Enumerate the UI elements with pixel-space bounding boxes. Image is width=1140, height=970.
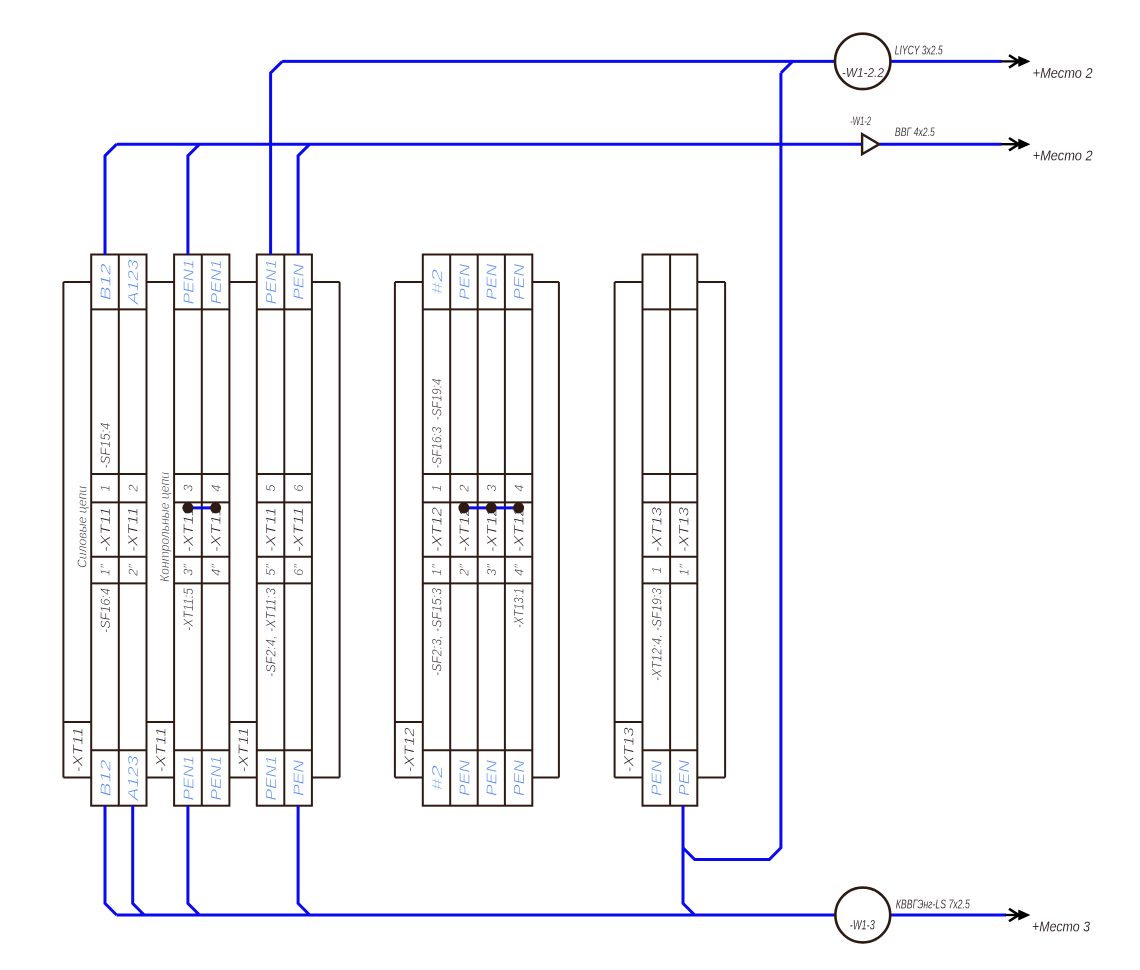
svg-text:PEN1: PEN1: [263, 259, 280, 304]
svg-text:-XT11: -XT11: [208, 507, 224, 552]
svg-text:LIYCY 3x2.5: LIYCY 3x2.5: [895, 43, 943, 58]
svg-text:4″: 4″: [208, 564, 223, 576]
terminal strip XT12 outline: [423, 255, 533, 806]
wire PEN1 to cable W1-2: [188, 144, 200, 254]
svg-text:PEN: PEN: [511, 760, 528, 796]
svg-text:3: 3: [484, 484, 499, 492]
svg-text:3: 3: [181, 484, 196, 492]
svg-text:+Место 2: +Место 2: [1033, 65, 1094, 82]
svg-text:-SF16:4: -SF16:4: [97, 588, 113, 633]
wire B12 to cable W1-3: [105, 806, 117, 915]
svg-text:2″: 2″: [125, 564, 140, 577]
svg-text:5″: 5″: [263, 564, 278, 576]
wire cable W1-2 to arrow: [879, 143, 1001, 146]
svg-text:1: 1: [429, 485, 444, 492]
wire W1-2.2 horizontal: [282, 60, 835, 63]
cable symbol W1-3 (circle): [835, 888, 890, 943]
wire cable W1-3 to arrow: [890, 914, 1006, 917]
svg-text:-XT12: -XT12: [511, 507, 527, 552]
terminal block XT11 outer bracket: [63, 282, 339, 778]
svg-text:PEN1: PEN1: [263, 756, 280, 801]
wire riser XT13 PEN to W1-2.2: [683, 61, 793, 859]
wire cable W1-2.2 to arrow: [891, 60, 1002, 63]
svg-text:2: 2: [457, 484, 472, 493]
svg-text:PEN1: PEN1: [180, 756, 197, 801]
svg-text:-XT11: -XT11: [152, 727, 168, 772]
svg-text:PEN: PEN: [676, 760, 693, 796]
terminal block XT13 outer bracket: [615, 282, 726, 778]
svg-text:#2: #2: [429, 764, 446, 791]
svg-text:-XT11: -XT11: [69, 727, 85, 772]
svg-text:B12: B12: [97, 759, 114, 797]
svg-text:Силовые цепи: Силовые цепи: [74, 486, 89, 568]
svg-text:-XT11: -XT11: [97, 507, 113, 552]
svg-text:1″: 1″: [676, 564, 691, 576]
svg-text:-XT12: -XT12: [401, 727, 417, 772]
svg-text:+Место 2: +Место 2: [1033, 148, 1094, 165]
wire bus to cable W1-2 (horizontal): [117, 143, 863, 146]
svg-text:B12: B12: [97, 263, 114, 301]
terminal block XT12 outer bracket: [395, 282, 559, 778]
svg-text:-XT12:4, -SF19:3: -XT12:4, -SF19:3: [648, 588, 664, 681]
svg-text:1″: 1″: [98, 564, 113, 576]
svg-text:-SF2:4, -XT11:3: -SF2:4, -XT11:3: [263, 588, 279, 677]
wire PEN1 to cable W1-2.2: [271, 61, 283, 254]
cable symbol W1-2 (triangle): [862, 134, 879, 154]
svg-text:A123: A123: [125, 755, 142, 802]
svg-text:PEN: PEN: [649, 760, 666, 796]
svg-text:PEN: PEN: [456, 760, 473, 796]
wire A123 to cable W1-3: [133, 806, 145, 915]
terminal strip XT11-1 outline: [91, 255, 146, 806]
terminal strip XT11-2 outline: [174, 255, 229, 806]
svg-text:#2: #2: [429, 268, 446, 295]
arrow to +Место 2 (W1-2): [1001, 138, 1029, 150]
svg-text:PEN1: PEN1: [208, 259, 225, 304]
svg-text:-XT11: -XT11: [263, 507, 279, 552]
svg-text:-XT12: -XT12: [429, 507, 445, 552]
svg-text:4: 4: [208, 485, 223, 492]
svg-text:PEN: PEN: [484, 264, 501, 300]
svg-text:PEN1: PEN1: [208, 756, 225, 801]
svg-text:-XT11: -XT11: [125, 507, 141, 552]
wire XT13 PEN down to bus: [683, 806, 695, 915]
jumper XT11 terminals 3-4: [182, 502, 221, 513]
svg-text:-XT11: -XT11: [290, 507, 306, 552]
svg-text:5: 5: [263, 484, 278, 492]
arrow to +Место 2 (W1-2.2): [1001, 55, 1029, 67]
svg-text:ВВГ 4х2.5: ВВГ 4х2.5: [895, 125, 935, 139]
svg-text:-XT11: -XT11: [235, 727, 251, 772]
svg-text:PEN1: PEN1: [180, 259, 197, 304]
svg-text:PEN: PEN: [511, 264, 528, 300]
svg-text:КВВГЭнг-LS 7х2.5: КВВГЭнг-LS 7х2.5: [896, 897, 971, 912]
wire PEN to cable W1-2: [298, 144, 310, 254]
svg-text:PEN: PEN: [291, 264, 308, 300]
svg-text:-XT13: -XT13: [648, 507, 664, 552]
svg-text:1: 1: [649, 566, 664, 573]
svg-text:-XT12: -XT12: [483, 507, 499, 552]
terminal strip XT11-3 outline: [257, 255, 312, 806]
arrow to +Место 3 (W1-3): [1006, 909, 1030, 921]
svg-text:-W1-3: -W1-3: [850, 918, 875, 933]
svg-text:-XT13: -XT13: [621, 727, 637, 772]
wire B12 to cable W1-2: [105, 144, 117, 254]
svg-text:4: 4: [511, 485, 526, 492]
svg-text:Контрольные цепи: Контрольные цепи: [157, 472, 172, 582]
svg-text:1: 1: [98, 485, 113, 492]
svg-text:PEN: PEN: [291, 760, 308, 796]
svg-text:-XT12: -XT12: [456, 507, 472, 552]
svg-text:-SF16:3 -SF19:4: -SF16:3 -SF19:4: [429, 378, 445, 468]
svg-text:2″: 2″: [457, 564, 472, 577]
svg-text:-SF2:3, -SF15:3: -SF2:3, -SF15:3: [429, 588, 445, 676]
svg-text:4″: 4″: [511, 564, 526, 576]
svg-text:-XT11: -XT11: [180, 507, 196, 552]
svg-text:3″: 3″: [181, 564, 196, 576]
svg-text:+Место 3: +Место 3: [1032, 919, 1091, 936]
terminal strip XT13 outline: [643, 255, 698, 806]
svg-text:A123: A123: [125, 259, 142, 306]
wire bus to cable W1-3 (horizontal): [117, 914, 836, 917]
svg-text:PEN: PEN: [456, 264, 473, 300]
svg-text:-W1-2.2: -W1-2.2: [842, 65, 885, 80]
wire PEN to cable W1-3: [298, 806, 310, 915]
svg-text:-XT13: -XT13: [676, 507, 692, 552]
svg-text:2: 2: [125, 484, 140, 493]
svg-text:PEN: PEN: [484, 760, 501, 796]
jumper XT12 terminals 2-3-4: [458, 502, 524, 513]
svg-text:6: 6: [291, 484, 306, 492]
svg-text:-XT11:5: -XT11:5: [180, 588, 196, 631]
svg-text:1″: 1″: [429, 564, 444, 576]
svg-text:3″: 3″: [484, 564, 499, 576]
svg-text:-W1-2: -W1-2: [850, 116, 871, 128]
svg-text:6″: 6″: [291, 564, 306, 576]
wire PEN1 to cable W1-3: [188, 806, 200, 915]
svg-text:-XT13:1: -XT13:1: [511, 588, 527, 628]
svg-text:-SF15:4: -SF15:4: [97, 422, 113, 468]
cable symbol W1-2.2 (circle): [835, 34, 890, 89]
